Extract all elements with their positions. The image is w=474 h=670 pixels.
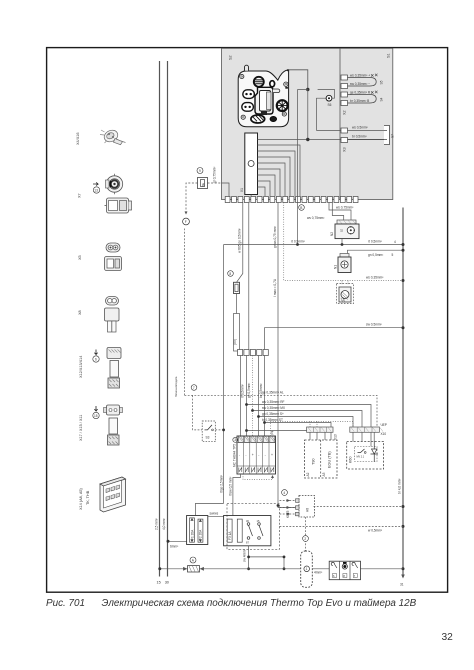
- wire relay to rail y520: [314, 506, 404, 508]
- svg-text:Х12/Х13/Х14: Х12/Х13/Х14: [79, 356, 83, 378]
- svg-text:ws 0,75mm²: ws 0,75mm²: [307, 216, 324, 220]
- svg-text:К60: К60: [349, 457, 353, 463]
- svg-text:br 0,35mm² B: br 0,35mm² B: [350, 99, 369, 103]
- fuse box F1 F2: [187, 516, 208, 545]
- svg-text:ws 0,35mm² RF: ws 0,35mm² RF: [262, 400, 285, 404]
- connector strip X18: [350, 427, 380, 432]
- X3 end bracket: [384, 126, 390, 145]
- heater A1 block background: [222, 48, 393, 199]
- fuse 3A: [198, 178, 208, 189]
- X3 pin row 1: [341, 128, 348, 133]
- svg-text:Х17 / Х15 / Х11: Х17 / Х15 / Х11: [79, 415, 83, 441]
- svg-text:rt/sw 0,5 mm²: rt/sw 0,5 mm²: [228, 477, 232, 496]
- svg-text:X4/X16: X4/X16: [76, 133, 80, 145]
- circled 9: [197, 168, 203, 174]
- svg-text:MV 2.1: MV 2.1: [357, 456, 365, 459]
- junction node: [306, 138, 309, 141]
- circled 13: [93, 187, 99, 193]
- circled 3: [233, 437, 238, 442]
- svg-text:ТК, ТНВ: ТК, ТНВ: [86, 490, 90, 505]
- svg-text:S6: S6: [328, 103, 332, 107]
- wire pump stub A: [341, 222, 343, 245]
- svg-text:sw 0,5mm²: sw 0,5mm²: [366, 323, 382, 327]
- svg-text:-: -: [265, 453, 266, 457]
- holder box: [234, 314, 240, 352]
- svg-text:S4: S4: [380, 97, 384, 101]
- wire S3 to junction: [215, 429, 223, 431]
- wire fan f2: [247, 405, 372, 428]
- svg-text:5: 5: [392, 253, 394, 257]
- svg-text:F: F: [185, 220, 187, 224]
- X2 pin row pair 1: [341, 74, 378, 89]
- wire fuse to holder: [236, 294, 238, 314]
- connector X7 round view: [106, 174, 123, 194]
- svg-text:32: 32: [340, 229, 344, 233]
- wire rail15 to F1F2: [196, 503, 224, 515]
- heater terminal nub: [287, 69, 289, 71]
- wire w805 drop: [237, 203, 243, 283]
- svg-text:15: 15: [94, 414, 98, 418]
- wire strip to T90 pins: [310, 432, 331, 440]
- wire main feed: [224, 244, 403, 246]
- X3 pin row 2: [341, 138, 384, 143]
- svg-text:3: 3: [234, 438, 236, 442]
- wire relay down: [248, 546, 250, 569]
- svg-text:S1: S1: [387, 53, 391, 58]
- K60 resistor: [358, 449, 365, 453]
- component H8: [299, 496, 315, 518]
- wire dashed from F: [184, 229, 186, 396]
- svg-text:9: 9: [199, 169, 201, 173]
- wire KL15 bottom run: [160, 568, 403, 570]
- connector X12/X13/X14 view: [107, 348, 121, 389]
- svg-text:X3: X3: [343, 147, 347, 152]
- svg-text:X2: X2: [343, 110, 347, 115]
- dosing pump N1: [340, 254, 349, 258]
- svg-text:F2 20А: F2 20А: [199, 529, 203, 540]
- svg-text:Х13: Х13: [334, 434, 338, 440]
- svg-text:sw 4mm²: sw 4mm²: [243, 549, 247, 562]
- connector X5 pins view: [106, 243, 120, 252]
- heater oval port 2: [242, 103, 254, 112]
- switch S3 dashed box: [202, 421, 215, 442]
- svg-text:Х10: Х10: [381, 432, 387, 436]
- svg-text:rt 0,5mm²: rt 0,5mm²: [368, 240, 382, 244]
- svg-text:ws 0,75mm²: ws 0,75mm²: [336, 206, 353, 210]
- connector X8 pins view: [106, 297, 119, 306]
- relay contacts: [247, 523, 263, 540]
- svg-text:gn 0,35mm² S+: gn 0,35mm² S+: [262, 412, 284, 416]
- svg-text:8: 8: [229, 272, 231, 276]
- svg-text:S2: S2: [229, 55, 233, 60]
- svg-text:+: +: [271, 453, 273, 457]
- wire rail30 to F1F2: [168, 540, 187, 542]
- wire diagnostic dotted: [284, 203, 403, 281]
- svg-text:N2: N2: [330, 232, 334, 236]
- svg-text:Х14 (А8, А5): Х14 (А8, А5): [79, 488, 83, 510]
- heater glow plug circle: [254, 77, 264, 87]
- rail KL30: [167, 61, 169, 577]
- svg-text:4: 4: [283, 491, 285, 495]
- svg-text:4,0 mm²: 4,0 mm²: [162, 518, 166, 530]
- wire fan f4: [259, 417, 354, 428]
- svg-text:15: 15: [157, 581, 161, 585]
- arrow marker X17: [94, 406, 97, 411]
- connector X1 block: [245, 133, 258, 195]
- wire heater terminal to node: [289, 70, 308, 89]
- heater oval port 1: [243, 90, 255, 99]
- svg-text:1: 1: [306, 567, 308, 571]
- wire fan f5: [265, 423, 332, 428]
- sensor TD dashed: [342, 281, 348, 286]
- svg-text:31: 31: [400, 583, 404, 587]
- wire corner to rail: [265, 328, 404, 350]
- wire strip to K60 pins: [353, 432, 374, 446]
- svg-text:А2: А2: [306, 472, 310, 476]
- wire X1 harness rows: [251, 140, 384, 197]
- svg-text:4mm²: 4mm²: [314, 571, 322, 575]
- wire gr/ws drop: [278, 203, 296, 508]
- svg-text:(Х9): (Х9): [233, 339, 237, 345]
- wire timer feeds: [240, 356, 242, 437]
- rail junction nodes: [402, 243, 405, 246]
- timer P body: [237, 436, 276, 474]
- heater exhaust oval hatched: [251, 115, 265, 123]
- wire dotted to strip: [271, 422, 354, 437]
- svg-text:Электрическая схема подключени: Электрическая схема подключения Thermo T…: [102, 598, 417, 609]
- svg-text:ЧЕР: ЧЕР: [381, 423, 387, 427]
- svg-text:S7: S7: [391, 134, 395, 138]
- connector X17/X15/X11 view: [104, 405, 123, 445]
- svg-text:4: 4: [394, 240, 396, 244]
- junction node: [306, 88, 309, 91]
- svg-text:13: 13: [94, 188, 98, 192]
- svg-text:32: 32: [442, 632, 454, 643]
- circled 8: [228, 271, 234, 277]
- heater mount tab top-left: [245, 65, 249, 71]
- svg-text:sw 0,35mm² MX: sw 0,35mm² MX: [262, 406, 286, 410]
- wire inner feed: [222, 183, 230, 197]
- svg-text:87: 87: [246, 541, 249, 545]
- K60 inner dashed: [355, 447, 378, 462]
- svg-text:ws 0,5mm²: ws 0,5mm²: [352, 126, 368, 130]
- svg-text:X5: X5: [78, 255, 82, 260]
- fuse F4: [237, 519, 242, 542]
- svg-text:X1: X1: [240, 188, 244, 192]
- circled B: [299, 205, 305, 211]
- heater unit illustration body: [238, 70, 288, 127]
- svg-text:N1: N1: [334, 265, 338, 269]
- svg-text:Р4: Р4: [271, 430, 275, 434]
- svg-text:6mm²: 6mm²: [170, 545, 178, 549]
- svg-text:S5: S5: [380, 80, 384, 84]
- svg-text:-: -: [239, 453, 240, 457]
- heater fan circle: [277, 100, 288, 111]
- wire timer to relay: [233, 474, 241, 516]
- wire ge drop: [248, 203, 250, 350]
- svg-text:sw/ws: sw/ws: [210, 512, 219, 516]
- connector strip X13: [307, 427, 333, 432]
- box T90 EGU: [305, 440, 338, 478]
- svg-text:15: 15: [257, 519, 260, 523]
- circled 2 node: [303, 536, 309, 542]
- svg-text:+: +: [252, 453, 254, 457]
- fuse F3: [227, 519, 232, 542]
- svg-text:rt 0,5mm²: rt 0,5mm²: [241, 384, 245, 398]
- svg-text:F1 20А: F1 20А: [190, 529, 194, 540]
- fuse 8A: [234, 282, 240, 293]
- heater block divider: [339, 48, 341, 199]
- circled 7: [191, 385, 197, 391]
- arrow marker X7: [93, 182, 98, 185]
- svg-text:2: 2: [304, 537, 306, 541]
- wire dashed branch to S3: [193, 395, 203, 430]
- lamp S6: [326, 95, 332, 101]
- rail KL15: [159, 61, 161, 577]
- wire to rail y545: [280, 525, 404, 527]
- svg-text:F3 1А: F3 1А: [228, 531, 232, 540]
- svg-text:w 805 ge 0,5mm²: w 805 ge 0,5mm²: [237, 228, 241, 253]
- connector strip X12: [238, 350, 269, 356]
- svg-text:30: 30: [246, 519, 249, 523]
- svg-text:gr 0,75mm²: gr 0,75mm²: [213, 167, 217, 183]
- svg-text:X7: X7: [78, 193, 82, 198]
- svg-text:6: 6: [95, 357, 97, 361]
- circled 6: [93, 356, 99, 362]
- connector X7 housing view: [105, 198, 132, 213]
- svg-text:Н8: Н8: [306, 508, 310, 512]
- heater corner screw top-left: [240, 74, 244, 78]
- wire fan f1 dashed: [185, 395, 378, 427]
- wire to lamp S6: [317, 98, 327, 130]
- svg-text:EGU (ТВ): EGU (ТВ): [328, 451, 332, 468]
- svg-text:ge 0,35mm² AL: ge 0,35mm² AL: [262, 391, 284, 395]
- svg-text:А3: А3: [322, 472, 326, 476]
- svg-text:bl 0,35mm² ST: bl 0,35mm² ST: [262, 418, 283, 422]
- wire relay dashed to H8: [280, 500, 296, 502]
- svg-text:sw 0,35mm² −: sw 0,35mm² −: [350, 82, 370, 86]
- svg-text:w 0,5mm²: w 0,5mm²: [368, 529, 382, 533]
- pump N2: [337, 220, 356, 224]
- svg-text:Легион-Автодата: Легион-Автодата: [174, 376, 178, 397]
- wire fan f6: [247, 427, 326, 431]
- heater corner screw top-right: [284, 82, 288, 86]
- heater central housing: [255, 87, 273, 114]
- wire F1F2 to relay: [208, 516, 224, 518]
- wire dashed to F: [186, 183, 198, 213]
- wire under timer dotted: [243, 474, 273, 480]
- wire fan f3: [253, 411, 363, 428]
- svg-text:Т90: Т90: [312, 458, 316, 465]
- antenna component: [301, 551, 313, 587]
- svg-text:2,5 mm²: 2,5 mm²: [155, 518, 159, 530]
- wire pump link 2: [332, 203, 343, 221]
- svg-text:br 4,0 mm²: br 4,0 mm²: [398, 479, 402, 494]
- switch box S: [329, 561, 360, 580]
- K60 diode: [371, 442, 379, 462]
- svg-text:br 0,5mm²: br 0,5mm²: [352, 135, 367, 139]
- timer P connector pins: [238, 436, 274, 443]
- svg-text:I max = 0,7A: I max = 0,7A: [273, 278, 277, 297]
- relay dashed box: [227, 503, 280, 549]
- svg-text:S3: S3: [206, 436, 210, 440]
- heater attach mark: [285, 87, 288, 89]
- svg-text:7: 7: [193, 386, 195, 390]
- connector strip X1 pins: [225, 197, 358, 203]
- svg-text:X8: X8: [78, 310, 82, 315]
- svg-text:ge 0,35mm² R: ge 0,35mm² R: [350, 90, 371, 94]
- connector X14 (A8,A5) view: [100, 477, 126, 512]
- arrow marker X12: [94, 350, 97, 355]
- wire dashed to heater: [208, 182, 222, 184]
- svg-text:30: 30: [165, 581, 169, 585]
- svg-text:ge 0,5mm²: ge 0,5mm²: [247, 383, 251, 398]
- circled 15: [93, 412, 99, 418]
- connector X8 housing view: [105, 308, 120, 332]
- relay box K: [224, 516, 271, 546]
- circled A: [190, 557, 196, 563]
- wire H8 down: [305, 517, 307, 551]
- circled 4: [282, 490, 288, 496]
- connector X4/X16 view: [100, 128, 126, 145]
- svg-text:-: -: [245, 453, 246, 457]
- connector X5 housing view: [105, 257, 122, 271]
- svg-text:МС ТН6/44 ТР5: МС ТН6/44 ТР5: [233, 444, 237, 467]
- svg-text:ws 0,35mm²: ws 0,35mm²: [366, 276, 383, 280]
- svg-text:B: B: [300, 206, 302, 210]
- node F: [183, 218, 190, 225]
- svg-text:Рис. 701: Рис. 701: [46, 598, 85, 609]
- wire pump feed 2: [348, 250, 404, 257]
- svg-text:-: -: [258, 453, 259, 457]
- fuse main: [188, 566, 200, 572]
- page frame: [47, 48, 448, 593]
- svg-text:KL15: KL15: [286, 510, 290, 518]
- svg-text:gn 0,5mm²: gn 0,5mm²: [368, 253, 383, 257]
- svg-text:rt/ge 2,5mm²: rt/ge 2,5mm²: [219, 475, 223, 493]
- X2 pin row pair 2: [341, 91, 378, 106]
- heater corner screw bottom-left: [241, 115, 245, 119]
- svg-text:ws 0,35mm² +: ws 0,35mm² +: [350, 73, 370, 77]
- wire node link: [298, 90, 308, 140]
- heater fuel stub: [270, 81, 275, 87]
- wire pump link 1: [297, 90, 299, 245]
- rail KL31: [402, 208, 404, 578]
- heater corner screw bottom-right: [282, 112, 286, 116]
- box K60: [347, 442, 384, 470]
- heater intake oval dark: [270, 116, 277, 121]
